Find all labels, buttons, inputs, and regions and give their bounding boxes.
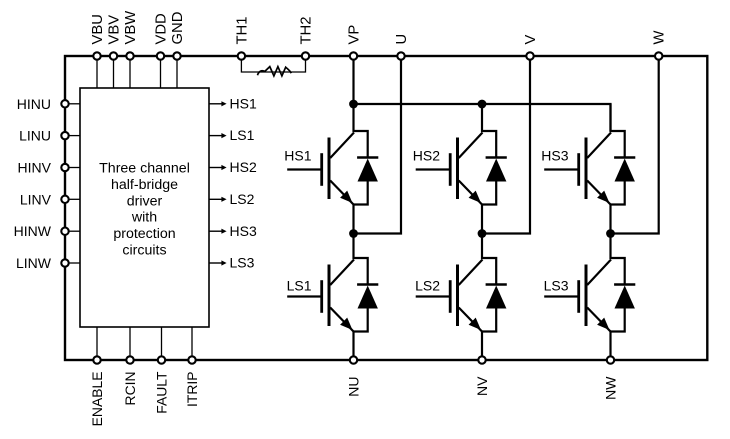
svg-text:circuits: circuits [122,243,166,259]
svg-text:HS2: HS2 [413,148,440,164]
svg-text:TH1: TH1 [234,17,250,45]
svg-text:LS3: LS3 [544,278,569,294]
svg-text:driver: driver [127,193,163,209]
svg-text:HS3: HS3 [230,223,257,239]
svg-text:NU: NU [346,377,362,397]
svg-text:ENABLE: ENABLE [89,372,105,427]
svg-text:protection: protection [113,226,175,242]
svg-text:HS1: HS1 [230,95,257,111]
svg-text:LINW: LINW [16,255,52,271]
svg-text:half-bridge: half-bridge [111,177,178,193]
svg-text:LINV: LINV [20,191,52,207]
svg-text:VDD: VDD [154,13,170,44]
svg-text:HINU: HINU [17,96,51,112]
svg-text:FAULT: FAULT [154,371,170,414]
svg-text:U: U [394,34,410,45]
svg-text:LINU: LINU [19,128,51,144]
svg-text:RCIN: RCIN [122,372,138,406]
svg-text:VP: VP [347,25,363,45]
svg-text:NW: NW [603,376,619,400]
svg-text:ITRIP: ITRIP [184,372,200,408]
svg-text:VBU: VBU [90,14,106,44]
svg-text:VBW: VBW [123,11,139,45]
svg-text:LS3: LS3 [230,255,255,271]
svg-text:Three channel: Three channel [99,161,190,177]
svg-text:GND: GND [170,12,186,45]
svg-text:HINW: HINW [14,223,52,239]
svg-text:VBV: VBV [107,15,123,45]
svg-text:LS1: LS1 [287,278,312,294]
svg-text:LS1: LS1 [230,127,255,143]
svg-text:LS2: LS2 [230,191,255,207]
svg-text:HS3: HS3 [541,148,568,164]
svg-text:with: with [131,210,157,226]
svg-text:LS2: LS2 [415,278,440,294]
svg-text:HINV: HINV [18,160,52,176]
svg-text:V: V [523,35,539,45]
svg-text:W: W [652,31,668,45]
svg-text:NV: NV [474,376,490,396]
svg-text:HS1: HS1 [284,148,311,164]
svg-text:TH2: TH2 [299,17,315,45]
svg-text:HS2: HS2 [230,159,257,175]
